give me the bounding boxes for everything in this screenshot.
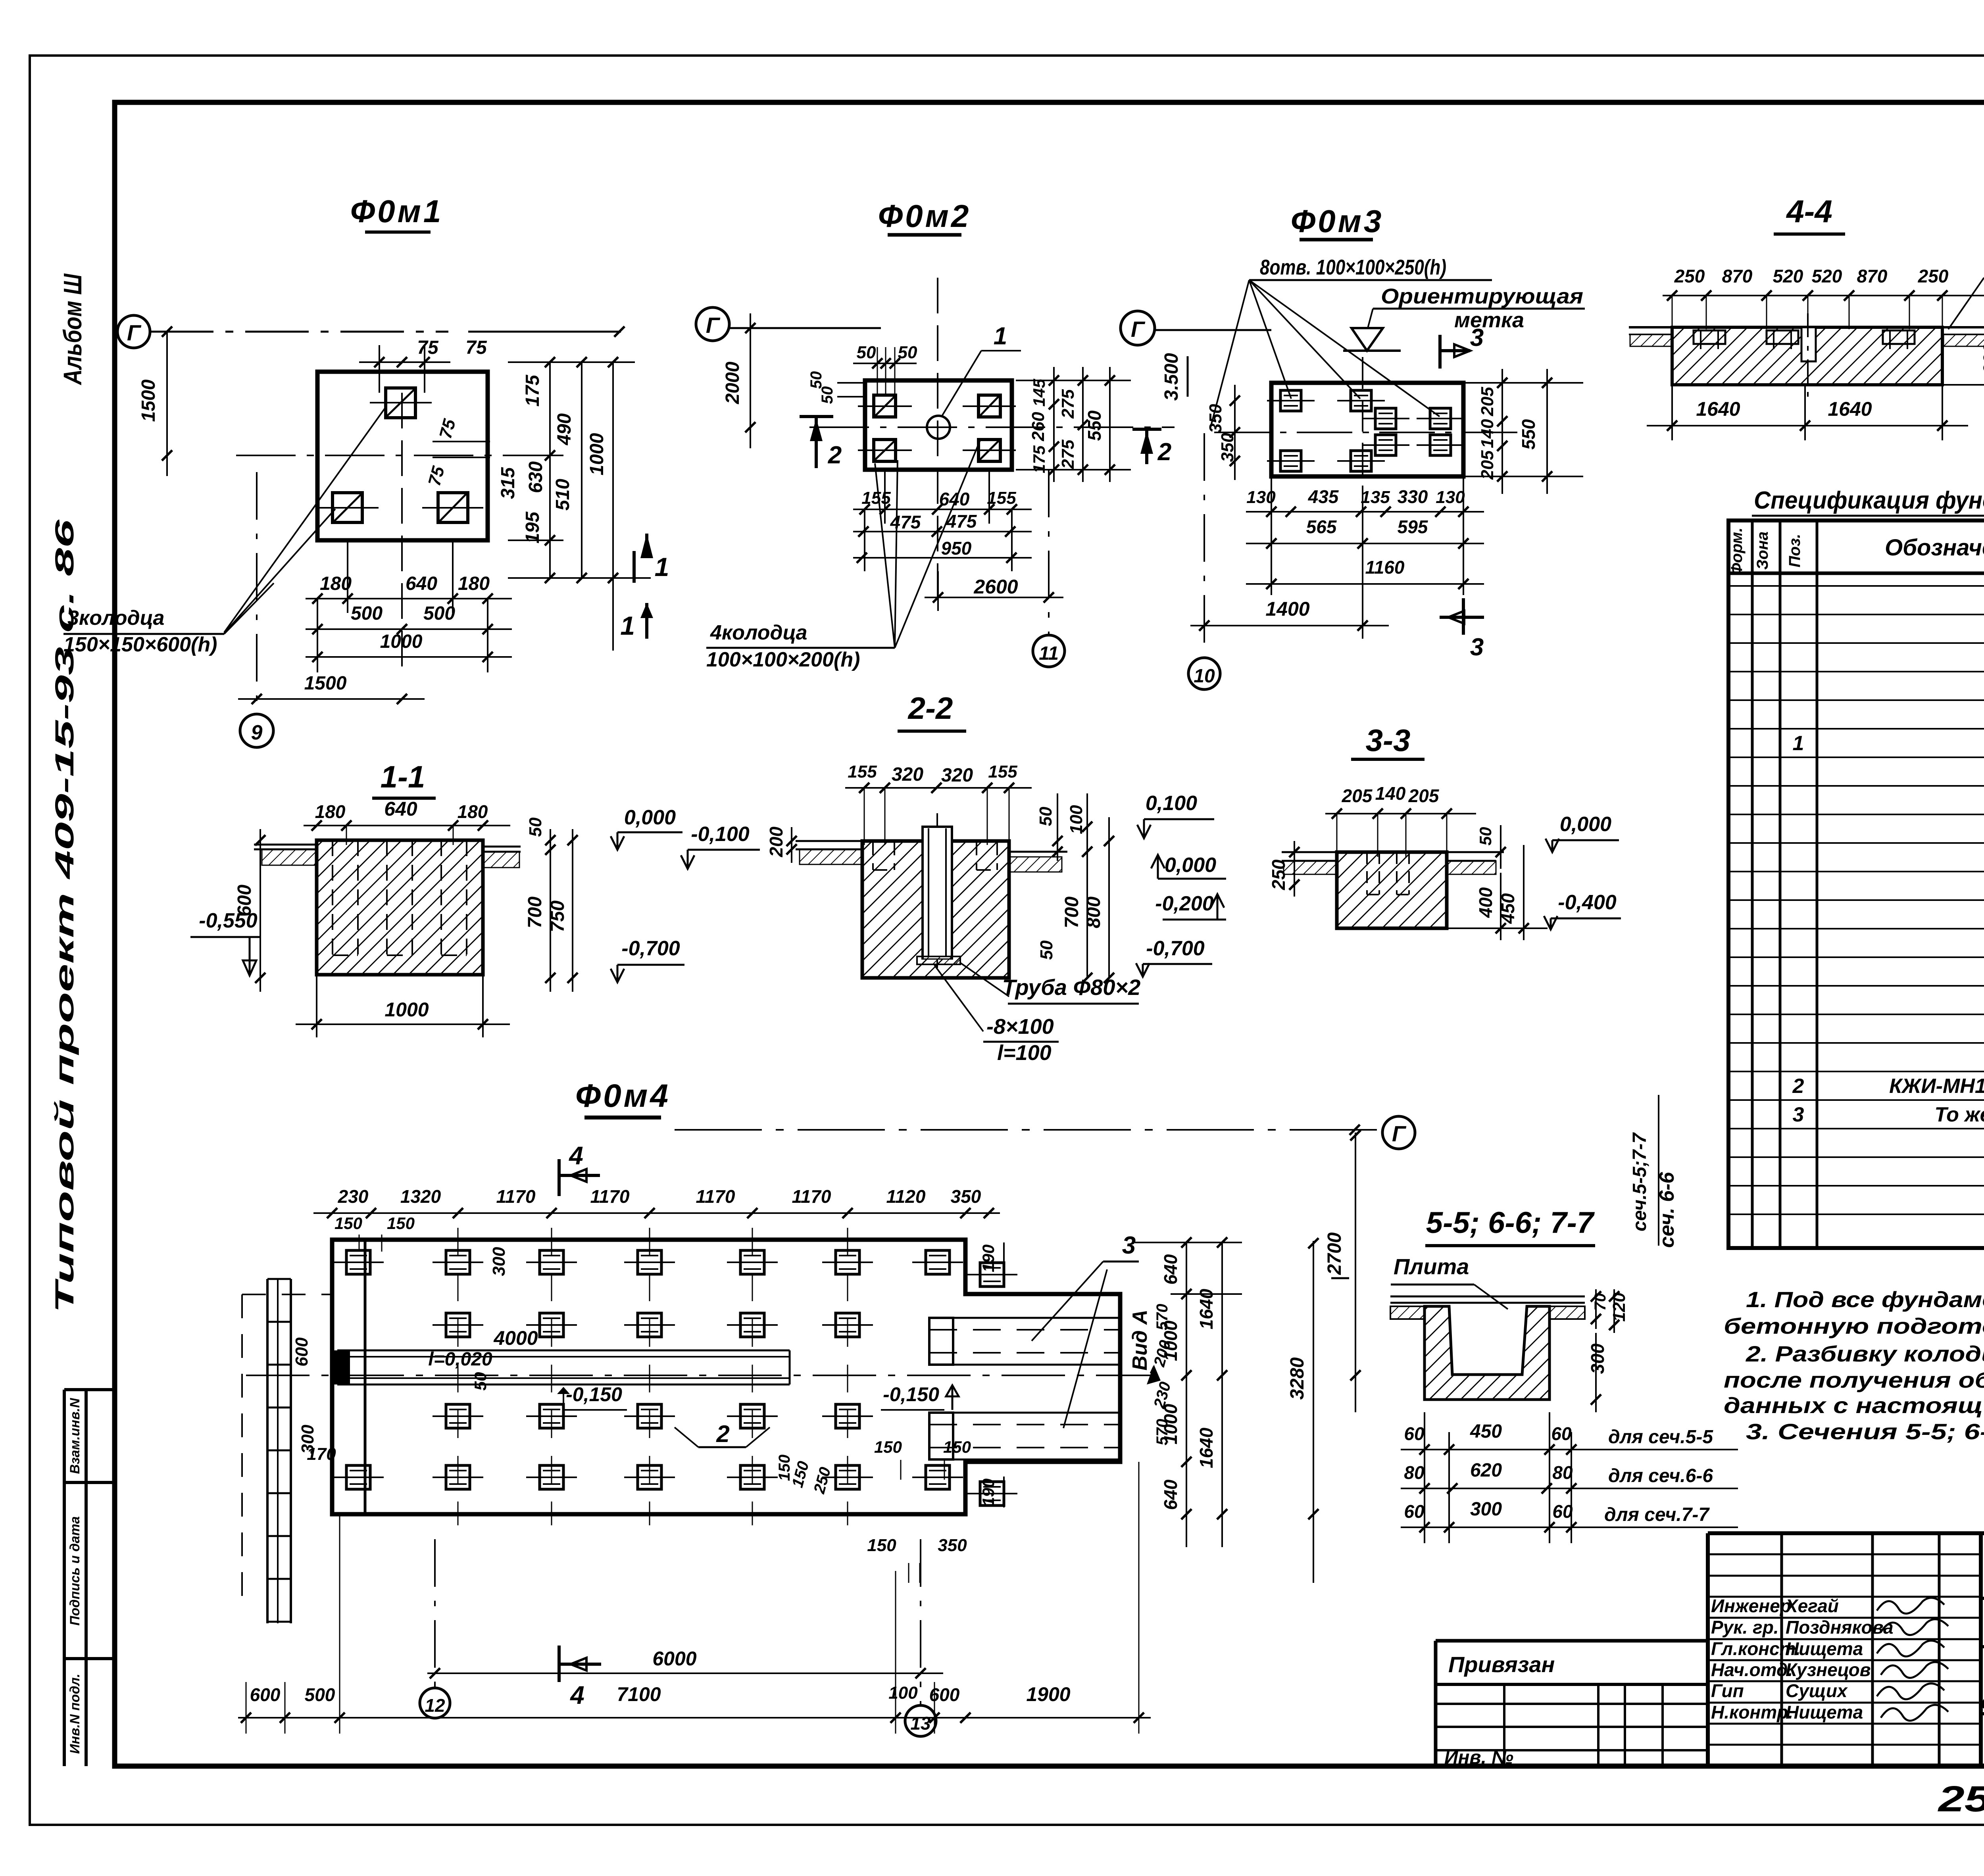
svg-text:со складом заполнителей: со складом заполнителей: [1981, 1690, 1984, 1714]
svg-text:2600: 2600: [973, 576, 1018, 598]
svg-text:50: 50: [807, 371, 825, 389]
beam slots right (ФОм4): [929, 1317, 1120, 1319]
right dim chains (ФОм4): [1135, 1242, 1242, 1243]
svg-text:700: 700: [1061, 897, 1082, 928]
svg-text:Ф0м2: Ф0м2: [878, 198, 971, 234]
svg-text:-0,150: -0,150: [883, 1383, 939, 1406]
svg-text:1170: 1170: [496, 1186, 536, 1207]
svg-text:180: 180: [458, 573, 490, 594]
svg-text:0,000: 0,000: [1560, 813, 1611, 836]
leader 2 (ФОм4 middle): [675, 1427, 698, 1447]
svg-text:0,100: 0,100: [1146, 792, 1197, 815]
svg-text:11: 11: [1039, 643, 1059, 664]
top slab (detail): [1390, 1296, 1585, 1298]
svg-text:230: 230: [338, 1186, 369, 1207]
svg-text:2-2: 2-2: [907, 691, 953, 726]
svg-text:Ф0м4: Ф0м4: [575, 1078, 671, 1114]
svg-text:Поз.: Поз.: [1786, 534, 1803, 568]
svg-text:Позднякова: Позднякова: [1786, 1617, 1894, 1638]
svg-text:640: 640: [939, 489, 970, 509]
svg-text:Подпись и дата: Подпись и дата: [67, 1516, 83, 1626]
svg-text:-0,100: -0,100: [691, 823, 750, 846]
svg-text:630: 630: [525, 461, 546, 493]
svg-text:435: 435: [1308, 486, 1339, 507]
1-1 bottom dim 1000: [316, 975, 317, 1037]
svg-text:175: 175: [1030, 445, 1048, 473]
svg-text:Ф0м1: Ф0м1: [350, 194, 444, 229]
svg-text:3: 3: [1122, 1232, 1136, 1259]
svg-text:1400: 1400: [1265, 598, 1309, 620]
svg-text:То же: То же: [1934, 1103, 1984, 1126]
svg-text:Обозначение: Обозначение: [1885, 535, 1984, 561]
svg-text:620: 620: [1470, 1460, 1502, 1481]
svg-text:Г: Г: [1131, 317, 1146, 342]
svg-text:100×100×200(h): 100×100×200(h): [706, 648, 860, 671]
svg-text:60: 60: [1404, 1501, 1425, 1522]
svg-text:570: 570: [1153, 1304, 1171, 1331]
svg-text:данных с настоящим проекто: данных с настоящим проектом.: [1724, 1393, 1984, 1418]
leader 3 (ФОм4 slots): [1032, 1262, 1103, 1341]
svg-text:Сущих: Сущих: [1786, 1680, 1848, 1701]
svg-text:0,000: 0,000: [1165, 854, 1216, 877]
3-3 foundation hatched block: [1337, 852, 1447, 928]
svg-text:190: 190: [979, 1479, 998, 1506]
svg-text:250: 250: [1674, 266, 1705, 286]
svg-text:350: 350: [1218, 433, 1237, 462]
svg-text:565: 565: [1306, 517, 1337, 537]
svg-text:520: 520: [1773, 266, 1803, 286]
svg-text:2. Разбивку колодцев под ан: 2. Разбивку колодцев под анкерные болты …: [1746, 1341, 1984, 1366]
svg-text:1640: 1640: [1196, 1288, 1217, 1329]
2-2 pipe: [923, 827, 952, 958]
svg-text:60: 60: [1404, 1423, 1425, 1444]
svg-text:3колодца: 3колодца: [67, 607, 164, 630]
column centerlines (ФОм4): [458, 1228, 459, 1525]
2-2 foundation hatched block: [862, 841, 1009, 978]
svg-text:140: 140: [1375, 783, 1406, 804]
channel slot (ФОм4 left): [337, 1350, 790, 1352]
svg-text:1-1: 1-1: [381, 759, 425, 794]
svg-text:80: 80: [1404, 1462, 1425, 1483]
svg-text:-0,150: -0,150: [566, 1383, 622, 1406]
svg-text:сеч.5-5;7-7: сеч.5-5;7-7: [1629, 1132, 1650, 1232]
left dims (ФОм3): 350 350: [1234, 385, 1236, 480]
svg-text:155: 155: [861, 488, 891, 508]
svg-text:205: 205: [1342, 785, 1373, 806]
svg-text:2700: 2700: [1324, 1232, 1345, 1275]
привязан table: [1436, 1639, 1708, 1643]
svg-text:Зона: Зона: [1754, 532, 1771, 570]
svg-text:3. Сечения 5-5; 6-6; 7-7;: 3. Сечения 5-5; 6-6; 7-7; замаркированы …: [1746, 1419, 1984, 1444]
1-1 dims right: 50 700 750: [550, 829, 551, 992]
svg-text:130: 130: [1436, 488, 1465, 507]
svg-text:600: 600: [292, 1337, 311, 1367]
svg-text:для сеч.7-7: для сеч.7-7: [1604, 1504, 1710, 1525]
svg-text:25665-03: 25665-03: [1937, 1779, 1984, 1819]
dim 1500 left vertical (ФОм1): [166, 332, 168, 476]
section flag 3 bottom (ФОм3): [1462, 598, 1465, 635]
svg-text:155: 155: [848, 762, 877, 782]
svg-text:3.500: 3.500: [1161, 353, 1182, 401]
svg-text:Инженер: Инженер: [1711, 1596, 1791, 1616]
svg-text:-0,700: -0,700: [1146, 937, 1205, 960]
axis Г line (ФОм1): [150, 331, 448, 333]
section flag 3 top (ФОм3): [1438, 335, 1442, 369]
svg-text:4000: 4000: [493, 1327, 538, 1349]
anchors grid (ФОм4): [346, 1250, 370, 1274]
svg-text:1900: 1900: [1026, 1683, 1070, 1705]
ФОм3 centerline: [1214, 432, 1528, 433]
4-4 centerline divider: [1807, 313, 1809, 397]
svg-text:60: 60: [1552, 1501, 1573, 1522]
svg-text:Инв.N подл.: Инв.N подл.: [67, 1674, 83, 1754]
svg-text:2: 2: [828, 442, 842, 469]
svg-text:950: 950: [941, 538, 972, 559]
svg-text:1160: 1160: [1365, 557, 1405, 578]
svg-text:475: 475: [890, 512, 921, 532]
svg-text:для сеч.5-5: для сеч.5-5: [1608, 1427, 1713, 1448]
svg-text:870: 870: [1722, 266, 1753, 286]
svg-text:300: 300: [489, 1247, 509, 1276]
svg-text:-0,700: -0,700: [621, 937, 680, 960]
svg-text:145: 145: [1030, 378, 1048, 407]
svg-text:150×150×600(h): 150×150×600(h): [63, 633, 217, 656]
ФОм3 plan rect: [1271, 383, 1463, 476]
svg-text:570: 570: [1153, 1419, 1171, 1446]
section flag 2 (ФОм2 right): [1132, 428, 1161, 431]
2-2 pipe base plate: [917, 956, 960, 964]
svg-text:600: 600: [1980, 343, 1984, 375]
svg-text:205: 205: [1478, 450, 1497, 480]
svg-text:250: 250: [1918, 266, 1949, 286]
svg-text:3280: 3280: [1287, 1357, 1308, 1400]
ФОм1 centerlines: [236, 455, 528, 456]
svg-text:200: 200: [766, 826, 786, 857]
svg-text:640: 640: [406, 573, 437, 594]
svg-text:2: 2: [1157, 438, 1171, 466]
svg-text:0,000: 0,000: [624, 806, 676, 829]
4-4 floor line: [1629, 326, 1984, 328]
svg-text:-0,550: -0,550: [199, 909, 258, 932]
svg-text:1170: 1170: [792, 1186, 831, 1207]
svg-text:1: 1: [994, 323, 1007, 350]
svg-text:870: 870: [1857, 266, 1888, 286]
3-3 anchor wells: [1366, 852, 1368, 895]
svg-text:Труба Ф80×2: Труба Ф80×2: [1002, 975, 1141, 1000]
svg-text:150: 150: [874, 1438, 902, 1456]
svg-text:1000: 1000: [384, 998, 429, 1021]
4-4 ground hatch left/right: [1630, 334, 1672, 346]
svg-text:155: 155: [988, 762, 1017, 782]
svg-text:5-5; 6-6; 7-7: 5-5; 6-6; 7-7: [1426, 1206, 1595, 1240]
svg-text:640: 640: [1160, 1479, 1181, 1510]
svg-text:50: 50: [1476, 827, 1495, 846]
svg-text:250: 250: [1268, 859, 1289, 890]
svg-text:180: 180: [458, 801, 488, 822]
svg-text:550: 550: [1518, 419, 1539, 449]
svg-text:Ф0м3: Ф0м3: [1291, 204, 1384, 239]
svg-text:1000: 1000: [586, 433, 608, 475]
right dim chain (ФОм1): [549, 361, 551, 579]
svg-text:2: 2: [716, 1421, 729, 1447]
2-2 ground lines right: [1009, 851, 1067, 853]
svg-text:100: 100: [888, 1683, 918, 1703]
svg-text:520: 520: [1812, 266, 1842, 286]
right dims (ФОм3): [1463, 382, 1583, 384]
axis Г circle (ФОм1): [117, 315, 150, 348]
svg-text:700: 700: [525, 897, 546, 928]
ФОм2 plan rect: [865, 380, 1012, 470]
svg-text:после получения оборудовани: после получения оборудования и сверки па…: [1724, 1367, 1984, 1392]
svg-text:-0,200: -0,200: [1155, 892, 1214, 915]
svg-text:1120: 1120: [886, 1186, 926, 1207]
svg-text:150: 150: [943, 1438, 971, 1456]
svg-text:205: 205: [1478, 387, 1497, 417]
svg-text:275: 275: [1058, 389, 1078, 419]
anchor pocket top (ФОм1): [386, 388, 415, 418]
svg-text:Г: Г: [127, 320, 142, 345]
svg-text:3: 3: [1793, 1103, 1804, 1126]
svg-text:4: 4: [568, 1141, 583, 1170]
1-1 anchor wells dashed: [332, 840, 333, 955]
svg-text:-8×100: -8×100: [986, 1015, 1054, 1039]
left dims (1-1): 600 -0,550: [260, 829, 261, 992]
svg-text:Нач.отд.: Нач.отд.: [1711, 1659, 1793, 1680]
svg-text:50: 50: [1037, 940, 1056, 960]
svg-text:600: 600: [929, 1684, 960, 1705]
svg-text:550: 550: [1084, 410, 1105, 441]
2-2 anchor wells dashed: [872, 841, 874, 870]
leaders 3 колодца: [224, 407, 386, 632]
svg-text:Гип: Гип: [1711, 1680, 1744, 1701]
svg-text:150: 150: [867, 1536, 896, 1555]
ФОм1 plan square: [317, 372, 488, 540]
trough outline hatched: [1425, 1306, 1550, 1400]
svg-text:1500: 1500: [138, 379, 159, 422]
svg-text:260: 260: [1029, 412, 1048, 442]
svg-text:6000: 6000: [652, 1648, 696, 1670]
svg-text:155: 155: [987, 488, 1016, 508]
svg-text:1170: 1170: [696, 1186, 735, 1207]
svg-text:195: 195: [522, 511, 543, 543]
anchor pocket left (ФОм1): [333, 493, 362, 522]
svg-text:Кузнецов: Кузнецов: [1786, 1659, 1871, 1680]
svg-text:1640: 1640: [1828, 398, 1872, 420]
right dim chains (ФОм2): [1016, 380, 1131, 381]
axis 10 vertical + circle: [1203, 433, 1205, 657]
svg-text:640: 640: [1160, 1254, 1181, 1285]
svg-text:75: 75: [465, 337, 487, 358]
svg-text:50: 50: [1036, 806, 1055, 826]
svg-text:320: 320: [941, 765, 973, 786]
svg-text:1. Под все фундаменты под: 1. Под все фундаменты под оборудование в…: [1746, 1287, 1984, 1312]
svg-text:50: 50: [819, 386, 836, 404]
ФОм2 centerlines: [809, 426, 1175, 428]
svg-text:50: 50: [526, 817, 545, 837]
svg-text:50: 50: [857, 343, 876, 362]
svg-text:3: 3: [1470, 634, 1484, 661]
svg-text:400: 400: [1475, 887, 1496, 918]
svg-text:l=0,020: l=0,020: [428, 1349, 492, 1370]
left sidebar mini table: [64, 1388, 115, 1391]
svg-text:12: 12: [425, 1695, 445, 1716]
svg-text:170: 170: [307, 1444, 336, 1464]
anchor pocket right (ФОм1): [438, 493, 468, 522]
svg-text:Привязан: Привязан: [1448, 1652, 1555, 1677]
svg-text:315: 315: [498, 467, 519, 499]
svg-text:1: 1: [620, 611, 635, 640]
svg-text:350: 350: [938, 1536, 967, 1555]
svg-text:Инв. №: Инв. №: [1444, 1747, 1513, 1768]
section flag 1 (right of ФОм1): [632, 551, 636, 583]
svg-text:Нищета: Нищета: [1786, 1638, 1863, 1659]
ФОм4 main outline: [332, 1240, 1120, 1514]
svg-text:140: 140: [1478, 419, 1497, 448]
svg-text:50: 50: [898, 343, 917, 362]
svg-text:Г: Г: [706, 313, 721, 338]
svg-text:500: 500: [351, 603, 383, 624]
spec table grid: [1728, 520, 1984, 1248]
svg-text:Рук. гр.: Рук. гр.: [1711, 1617, 1779, 1638]
svg-text:2000: 2000: [722, 361, 743, 404]
svg-text:190: 190: [979, 1244, 998, 1272]
axis 9 vertical + circle: [256, 472, 258, 714]
svg-text:-0,400: -0,400: [1558, 891, 1617, 914]
svg-text:4-4: 4-4: [1786, 194, 1832, 229]
svg-text:50: 50: [471, 1372, 490, 1391]
svg-text:8отв. 100×100×250(h): 8отв. 100×100×250(h): [1260, 255, 1446, 279]
svg-text:150: 150: [335, 1214, 362, 1233]
svg-text:350: 350: [1206, 404, 1225, 433]
svg-text:150: 150: [387, 1214, 415, 1233]
svg-text:595: 595: [1398, 517, 1428, 537]
svg-text:1640: 1640: [1196, 1427, 1217, 1468]
svg-text:Нищета: Нищета: [1786, 1702, 1863, 1722]
svg-text:80: 80: [1552, 1462, 1573, 1483]
svg-text:Хегай: Хегай: [1784, 1596, 1839, 1616]
svg-text:500: 500: [305, 1684, 335, 1705]
svg-text:10: 10: [1194, 666, 1215, 687]
dim 2000 left (ФОм2): [750, 313, 751, 448]
svg-text:для сеч.6-6: для сеч.6-6: [1608, 1465, 1713, 1486]
svg-text:510: 510: [552, 479, 573, 511]
svg-text:350: 350: [951, 1186, 981, 1207]
svg-text:4: 4: [569, 1681, 584, 1709]
svg-text:175: 175: [522, 374, 543, 407]
leaders from 8отв: [1210, 280, 1249, 428]
svg-text:7100: 7100: [617, 1683, 661, 1705]
anchors right extension: [980, 1263, 1004, 1287]
svg-text:1170: 1170: [590, 1186, 630, 1207]
svg-text:Спецификация фундаментов под: Спецификация фундаментов под оборудовани…: [1754, 487, 1984, 514]
svg-text:475: 475: [946, 511, 977, 532]
svg-text:300: 300: [1470, 1499, 1502, 1520]
svg-text:1500: 1500: [304, 673, 347, 694]
svg-text:1640: 1640: [1696, 398, 1740, 420]
svg-text:135: 135: [1361, 488, 1390, 507]
section flag 4 bottom: [558, 1646, 561, 1682]
plan centerline: [246, 1375, 1151, 1376]
svg-text:1: 1: [655, 552, 669, 582]
svg-text:метка: метка: [1454, 308, 1524, 332]
svg-text:70: 70: [1592, 1293, 1609, 1311]
svg-text:1000: 1000: [380, 631, 423, 652]
svg-text:Г: Г: [1392, 1121, 1407, 1146]
svg-text:330: 330: [1398, 486, 1428, 507]
svg-text:бетонную подготовку из бет: бетонную подготовку из бетона М50 толщ. …: [1724, 1313, 1984, 1338]
svg-text:450: 450: [1470, 1421, 1502, 1442]
axis Г circle (ФОм3): [1121, 311, 1155, 345]
svg-text:Ориентирующая: Ориентирующая: [1381, 284, 1583, 308]
axis 11 vertical + circle: [1048, 470, 1050, 634]
4-4 embedded plates: [1694, 330, 1725, 344]
ladder structure left of ФОм4: [266, 1279, 269, 1623]
anchor pockets (ФОм2): [874, 395, 896, 417]
svg-text:Взам.инв.N: Взам.инв.N: [67, 1398, 83, 1474]
4-4 foundation block hatched: [1672, 327, 1942, 385]
3-3 ground lines: [1282, 851, 1337, 853]
svg-text:300: 300: [1587, 1343, 1608, 1374]
svg-text:Плита: Плита: [1394, 1254, 1469, 1279]
svg-text:75: 75: [417, 337, 439, 358]
svg-text:1320: 1320: [400, 1186, 441, 1207]
svg-text:l=100: l=100: [997, 1041, 1052, 1065]
2-2 ground lines left: [796, 840, 862, 842]
section flag 2 (ФОм2 left): [800, 415, 833, 418]
svg-text:Н.контр.: Н.контр.: [1711, 1702, 1793, 1722]
svg-text:500: 500: [423, 603, 455, 624]
svg-text:Форм.: Форм.: [1728, 528, 1746, 575]
svg-text:2: 2: [1792, 1075, 1804, 1098]
svg-text:600: 600: [250, 1684, 281, 1705]
svg-text:275: 275: [1058, 440, 1078, 469]
svg-text:205: 205: [1408, 785, 1440, 806]
1-1 foundation hatched block: [317, 840, 483, 975]
signatures: [1877, 1598, 1944, 1614]
svg-text:180: 180: [315, 801, 346, 822]
axis Г circle (ФОм2): [696, 307, 729, 341]
svg-text:Вид А: Вид А: [1128, 1310, 1152, 1370]
center hole circle + leader 1 (ФОм2): [927, 416, 950, 439]
svg-text:750: 750: [547, 901, 568, 932]
svg-text:3: 3: [1470, 324, 1484, 351]
internal left wall: [364, 1240, 367, 1514]
axis Г (ФОм4): [675, 1129, 1382, 1131]
svg-text:Альбом Ш: Альбом Ш: [58, 273, 87, 386]
section flag 4 top: [558, 1159, 561, 1196]
anchors (ФОм3) 8 pcs: [1280, 390, 1301, 411]
svg-text:4колодца: 4колодца: [710, 621, 807, 644]
svg-text:60: 60: [1551, 1423, 1572, 1444]
svg-text:13: 13: [910, 1713, 931, 1734]
svg-text:800: 800: [1083, 897, 1104, 928]
svg-text:490: 490: [554, 413, 575, 445]
svg-text:КЖИ-МН1;МН2: КЖИ-МН1;МН2: [1889, 1075, 1984, 1098]
1-1 ground level lines: [254, 844, 317, 846]
svg-text:640: 640: [384, 798, 417, 820]
svg-text:1: 1: [1793, 732, 1804, 755]
triangle mark: [1352, 328, 1383, 351]
staff table: [1708, 1531, 1984, 1535]
svg-text:3-3: 3-3: [1366, 723, 1411, 758]
svg-text:9: 9: [251, 721, 263, 744]
svg-text:320: 320: [892, 764, 923, 785]
